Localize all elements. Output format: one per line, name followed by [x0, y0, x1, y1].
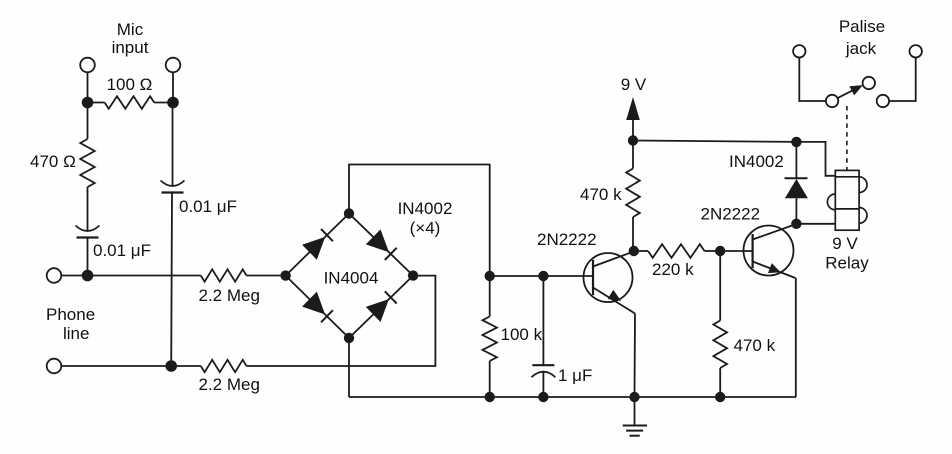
label "Palise jack"	[839, 17, 885, 58]
wire mic-right column	[172, 103, 174, 187]
capacitor 0.01 uF (right)	[162, 191, 184, 193]
svg-text:2N2222: 2N2222	[537, 230, 597, 249]
svg-text:Phone: Phone	[46, 305, 95, 324]
node: mic right junction	[167, 97, 179, 109]
jack contact middle	[863, 77, 875, 89]
svg-text:2.2 Meg: 2.2 Meg	[199, 375, 260, 394]
svg-text:100 Ω: 100 Ω	[107, 75, 153, 94]
node Q1 collector	[629, 246, 639, 256]
label "Phone line"	[46, 305, 95, 343]
wire phone bottom row	[61, 365, 201, 367]
transistor Q2 2N2222	[720, 224, 796, 278]
diode bridge: left to bottom (IN4002)	[302, 292, 333, 323]
resistor 100 Ohm	[88, 96, 174, 108]
svg-text:IN4002: IN4002	[398, 199, 453, 218]
wire relay bottom	[796, 223, 835, 225]
wire bridge top output	[349, 165, 490, 277]
wire capacitor to phone line	[87, 238, 89, 276]
node diode/relay top	[791, 137, 801, 147]
svg-text:220 k: 220 k	[652, 260, 694, 279]
resistor 470 k (lower)	[713, 251, 727, 397]
jack contact right inner	[877, 95, 889, 107]
wire bottom row to bridge right node	[247, 276, 436, 366]
resistor 2.2 Meg (top)	[201, 269, 247, 281]
svg-text:jack: jack	[845, 39, 877, 58]
jack switch arrow	[837, 85, 863, 98]
terminal mic input left	[80, 58, 95, 73]
svg-text:9 V: 9 V	[621, 75, 647, 94]
dashed link relay to jack	[846, 106, 848, 170]
ground symbol	[623, 397, 647, 436]
svg-text:9 V: 9 V	[832, 234, 858, 253]
svg-text:Mic: Mic	[117, 20, 144, 39]
resistor 2.2 Meg (bottom)	[201, 360, 247, 372]
jack contact left inner	[826, 95, 838, 107]
jack terminal right outer	[910, 45, 922, 57]
node rail 100k	[485, 392, 495, 402]
svg-text:470 k: 470 k	[580, 185, 622, 204]
wire 9V rail to relay	[633, 141, 835, 176]
wire phone top row	[61, 275, 201, 277]
terminal mic input right	[166, 58, 181, 73]
resistor 470 k (upper)	[626, 141, 640, 252]
capacitor 1 uF	[531, 276, 555, 397]
svg-text:2N2222: 2N2222	[701, 205, 761, 224]
node bridge right	[408, 270, 418, 280]
svg-text:(×4): (×4)	[410, 219, 441, 238]
node 100k top	[485, 271, 495, 281]
diode bridge: bottom to right (IN4002)	[366, 291, 397, 322]
wire mic-left stem	[87, 72, 89, 102]
node bridge top	[344, 208, 354, 218]
node rail 1uF	[538, 392, 548, 402]
svg-text:Relay: Relay	[825, 254, 869, 273]
svg-text:IN4002: IN4002	[729, 152, 784, 171]
transistor Q1 2N2222	[584, 251, 636, 313]
terminal phone line top	[47, 268, 62, 283]
supply 9V arrow	[626, 97, 640, 141]
resistor 220 k	[634, 244, 720, 258]
svg-text:IN4004: IN4004	[324, 269, 379, 288]
node on phone bottom row	[165, 360, 177, 372]
label "Mic input"	[112, 20, 149, 57]
svg-text:line: line	[63, 324, 89, 343]
svg-text:1 μF: 1 μF	[558, 366, 592, 385]
node bridge bottom	[344, 333, 354, 343]
label "IN4002 (x4)"	[398, 199, 453, 238]
svg-text:2.2 Meg: 2.2 Meg	[199, 286, 260, 305]
wire resistor to capacitor	[87, 187, 89, 231]
jack terminal left outer	[793, 45, 805, 57]
wire base row to Q1	[490, 275, 593, 277]
label "9 V Relay"	[825, 234, 869, 273]
diode bridge wires	[286, 214, 414, 339]
svg-text:470 k: 470 k	[734, 336, 776, 355]
wire jack right stem	[889, 58, 915, 102]
svg-text:Palise: Palise	[839, 17, 885, 36]
wire jack left stem	[799, 58, 825, 102]
resistor 100 k	[483, 276, 497, 397]
terminal phone line bottom	[47, 359, 62, 374]
wire to bridge left node	[247, 275, 286, 277]
diode bridge: lower-left to top (IN4002)	[302, 229, 333, 260]
node 1uF top	[538, 271, 548, 281]
node Q2 base	[715, 246, 725, 256]
diode IN4002 (flyback)	[785, 142, 808, 224]
svg-text:100 k: 100 k	[501, 325, 543, 344]
relay coil 9V	[827, 170, 867, 230]
wire bridge bottom leg	[348, 338, 350, 397]
svg-text:0.01 μF: 0.01 μF	[93, 241, 151, 260]
node: mic left junction	[82, 97, 94, 109]
node 9V	[628, 135, 638, 145]
wire Q2 emitter down to rail	[795, 278, 797, 397]
wire Q1 emitter down	[634, 314, 637, 398]
node rail emitter/ground	[629, 392, 639, 402]
resistor 470 Ohm	[80, 139, 94, 187]
node on phone top row	[82, 270, 94, 282]
node Q2 collector / relay bottom	[791, 219, 801, 229]
svg-text:input: input	[112, 38, 149, 57]
diode bridge: top to right (IN4002)	[366, 229, 397, 260]
wire left column to resistor	[87, 103, 89, 140]
wire right column down to bottom line	[170, 193, 173, 367]
svg-text:470 Ω: 470 Ω	[30, 152, 76, 171]
wire mic-right stem	[172, 72, 174, 102]
node rail 470k	[715, 392, 725, 402]
node bridge left	[280, 270, 290, 280]
capacitor 0.01 uF (left)	[77, 236, 99, 238]
ground rail	[349, 396, 796, 398]
svg-text:0.01 μF: 0.01 μF	[179, 197, 237, 216]
